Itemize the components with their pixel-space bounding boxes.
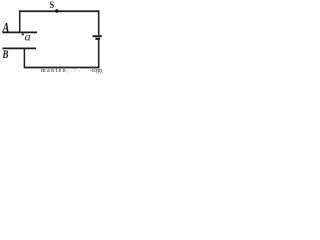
svg-text:B: B (2, 49, 9, 61)
svg-text:a: a (25, 30, 31, 44)
switch S pivot dot (55, 9, 58, 12)
wire: right vertical, battery down to bottom rail (98, 40, 100, 68)
svg-text:S: S (50, 0, 55, 10)
wire: right vertical, top rail down to battery (98, 10, 100, 35)
node a marker dot (22, 34, 24, 36)
capacitor plate A (2, 31, 37, 33)
label B (2, 49, 9, 61)
wire: left vertical from top rail down to plate A (19, 10, 21, 32)
wire: vertical from plate B down to bottom rail (23, 48, 25, 68)
watermark text (faint) (41, 67, 103, 74)
battery short plate (negative) (95, 38, 100, 40)
label S (50, 0, 55, 10)
svg-text:mantenjie5.: mantenjie5. (41, 68, 85, 74)
label a (25, 30, 31, 44)
wire: top rail from left corner to right corner (19, 10, 100, 12)
battery long plate (positive) (93, 35, 102, 37)
label A (2, 19, 10, 35)
background (0, 0, 105, 75)
wire: bottom rail from B-wire to right corner (24, 67, 100, 69)
capacitor plate B (2, 47, 36, 49)
